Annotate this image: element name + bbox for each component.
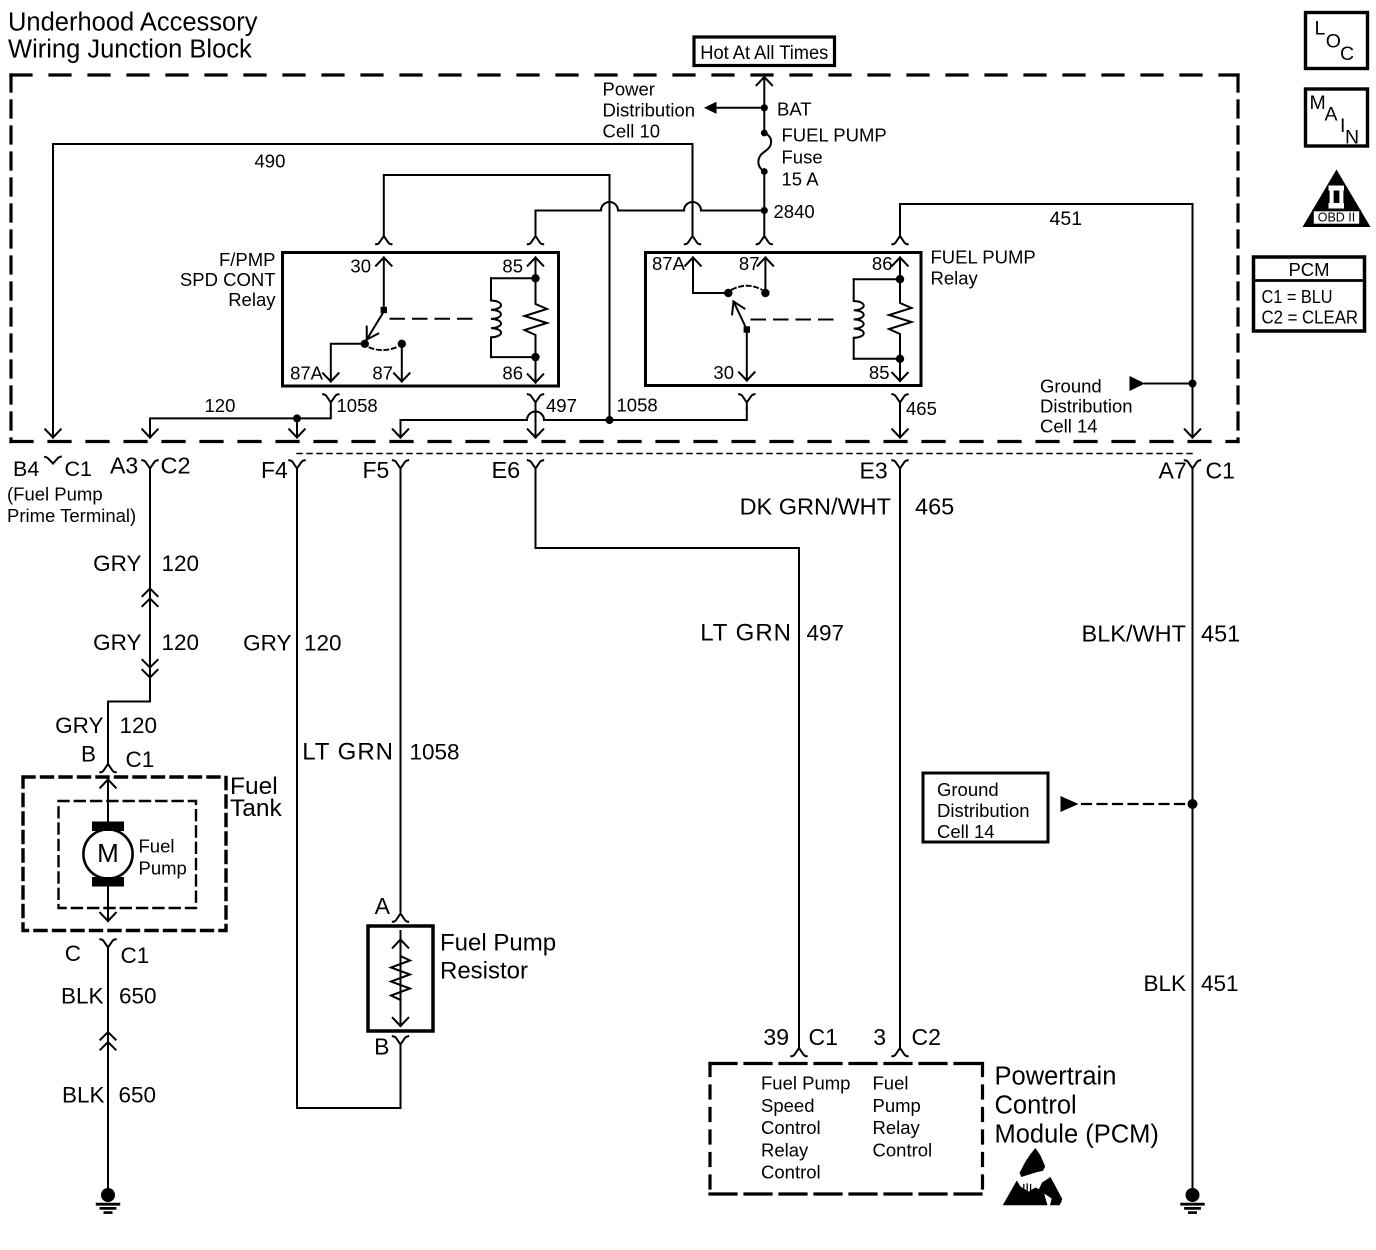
svg-text:PCM: PCM bbox=[1288, 259, 1329, 280]
svg-text:87A: 87A bbox=[290, 363, 324, 384]
svg-text:87A: 87A bbox=[652, 253, 686, 274]
svg-text:Control: Control bbox=[995, 1092, 1077, 1120]
svg-text:465: 465 bbox=[906, 398, 937, 419]
svg-text:F5: F5 bbox=[363, 457, 390, 483]
svg-text:B: B bbox=[81, 742, 96, 767]
svg-text:OBD II: OBD II bbox=[1318, 211, 1356, 225]
svg-text:Relay: Relay bbox=[931, 268, 979, 289]
svg-text:B4: B4 bbox=[13, 457, 39, 481]
svg-text:C2: C2 bbox=[912, 1024, 941, 1050]
svg-text:1058: 1058 bbox=[617, 395, 658, 416]
svg-text:Prime Terminal): Prime Terminal) bbox=[7, 505, 136, 526]
svg-text:85: 85 bbox=[869, 362, 890, 383]
svg-text:BLK/WHT: BLK/WHT bbox=[1082, 621, 1186, 647]
svg-text:2840: 2840 bbox=[774, 201, 815, 222]
svg-text:Ground: Ground bbox=[937, 779, 999, 800]
svg-text:3: 3 bbox=[873, 1024, 886, 1050]
svg-text:LT GRN: LT GRN bbox=[302, 739, 394, 766]
svg-text:GRY: GRY bbox=[93, 630, 141, 655]
svg-text:FUEL PUMP: FUEL PUMP bbox=[782, 125, 887, 146]
svg-text:BLK: BLK bbox=[1143, 971, 1186, 996]
svg-text:1058: 1058 bbox=[337, 395, 378, 416]
svg-text:451: 451 bbox=[1201, 621, 1240, 647]
svg-text:451: 451 bbox=[1201, 971, 1239, 996]
svg-text:120: 120 bbox=[120, 713, 158, 738]
svg-text:Power: Power bbox=[603, 79, 655, 100]
svg-text:Wiring Junction Block: Wiring Junction Block bbox=[8, 36, 252, 64]
svg-text:C2 = CLEAR: C2 = CLEAR bbox=[1262, 307, 1359, 328]
svg-text:B: B bbox=[374, 1034, 389, 1060]
svg-text:C: C bbox=[1340, 43, 1354, 65]
svg-text:DK GRN/WHT: DK GRN/WHT bbox=[740, 494, 891, 520]
svg-text:Distribution: Distribution bbox=[603, 100, 696, 121]
svg-text:Relay: Relay bbox=[873, 1117, 921, 1138]
svg-text:Fuel Pump: Fuel Pump bbox=[440, 930, 556, 957]
svg-text:15 A: 15 A bbox=[782, 169, 820, 190]
svg-text:FUEL PUMP: FUEL PUMP bbox=[931, 247, 1036, 268]
svg-text:120: 120 bbox=[162, 551, 200, 576]
svg-text:Fuel: Fuel bbox=[873, 1073, 909, 1094]
svg-text:A7: A7 bbox=[1159, 458, 1187, 484]
svg-text:F4: F4 bbox=[261, 457, 288, 483]
svg-text:85: 85 bbox=[502, 256, 523, 277]
svg-text:465: 465 bbox=[915, 494, 954, 520]
svg-text:GRY: GRY bbox=[243, 631, 291, 656]
svg-text:Cell 10: Cell 10 bbox=[603, 121, 661, 142]
svg-text:C1: C1 bbox=[126, 747, 155, 772]
svg-text:30: 30 bbox=[350, 256, 371, 277]
svg-text:C1 = BLU: C1 = BLU bbox=[1262, 286, 1333, 307]
svg-text:650: 650 bbox=[119, 984, 157, 1009]
svg-text:Tank: Tank bbox=[230, 795, 283, 822]
svg-text:490: 490 bbox=[255, 151, 286, 172]
svg-text:C1: C1 bbox=[65, 457, 92, 481]
svg-text:Cell 14: Cell 14 bbox=[1040, 416, 1098, 437]
svg-text:C1: C1 bbox=[1206, 458, 1235, 484]
svg-text:Pump: Pump bbox=[873, 1095, 921, 1116]
svg-text:Cell 14: Cell 14 bbox=[937, 821, 995, 842]
svg-text:Resistor: Resistor bbox=[440, 958, 528, 985]
svg-text:M: M bbox=[97, 838, 119, 868]
svg-text:Distribution: Distribution bbox=[1040, 396, 1133, 417]
svg-text:30: 30 bbox=[713, 362, 734, 383]
svg-text:M: M bbox=[1310, 92, 1326, 114]
svg-text:497: 497 bbox=[546, 395, 577, 416]
svg-text:Hot At All Times: Hot At All Times bbox=[700, 43, 828, 64]
svg-text:C2: C2 bbox=[161, 453, 191, 479]
svg-text:E3: E3 bbox=[860, 458, 888, 484]
svg-text:Fuse: Fuse bbox=[782, 147, 823, 168]
svg-text:SPD CONT: SPD CONT bbox=[180, 269, 276, 290]
svg-text:86: 86 bbox=[502, 363, 523, 384]
svg-text:N: N bbox=[1345, 127, 1359, 149]
svg-text:E6: E6 bbox=[492, 457, 521, 483]
svg-text:39: 39 bbox=[763, 1024, 789, 1050]
svg-text:C1: C1 bbox=[809, 1024, 838, 1050]
svg-text:Fuel: Fuel bbox=[139, 836, 175, 857]
svg-text:F/PMP: F/PMP bbox=[219, 249, 276, 270]
svg-text:BLK: BLK bbox=[62, 1083, 105, 1108]
svg-text:A: A bbox=[1325, 104, 1338, 126]
svg-text:BLK: BLK bbox=[61, 984, 104, 1009]
svg-text:Module (PCM): Module (PCM) bbox=[995, 1121, 1159, 1149]
svg-text:451: 451 bbox=[1050, 208, 1083, 230]
svg-text:A3: A3 bbox=[110, 453, 138, 479]
svg-text:120: 120 bbox=[162, 630, 200, 655]
svg-text:C: C bbox=[65, 941, 81, 966]
svg-text:Relay: Relay bbox=[228, 289, 276, 310]
svg-text:650: 650 bbox=[119, 1083, 157, 1108]
svg-text:Control: Control bbox=[761, 1117, 821, 1138]
svg-text:Powertrain: Powertrain bbox=[995, 1063, 1117, 1091]
svg-text:87: 87 bbox=[739, 253, 760, 274]
svg-text:Pump: Pump bbox=[139, 858, 187, 879]
svg-text:1058: 1058 bbox=[410, 740, 460, 765]
svg-text:120: 120 bbox=[205, 395, 236, 416]
svg-text:120: 120 bbox=[304, 631, 342, 656]
svg-text:Relay: Relay bbox=[761, 1139, 809, 1160]
svg-text:C1: C1 bbox=[121, 943, 150, 968]
svg-text:BAT: BAT bbox=[777, 99, 812, 120]
svg-text:Ground: Ground bbox=[1040, 376, 1102, 397]
svg-text:Underhood Accessory: Underhood Accessory bbox=[8, 9, 258, 37]
svg-text:A: A bbox=[375, 893, 391, 919]
svg-text:LT GRN: LT GRN bbox=[700, 620, 792, 647]
svg-text:GRY: GRY bbox=[93, 551, 141, 576]
svg-text:87: 87 bbox=[372, 363, 393, 384]
svg-text:O: O bbox=[1326, 31, 1341, 53]
svg-text:86: 86 bbox=[872, 253, 893, 274]
svg-text:Distribution: Distribution bbox=[937, 800, 1030, 821]
svg-text:Speed: Speed bbox=[761, 1095, 815, 1116]
svg-text:(Fuel Pump: (Fuel Pump bbox=[7, 484, 103, 505]
svg-text:Control: Control bbox=[873, 1139, 933, 1160]
svg-text:GRY: GRY bbox=[55, 713, 103, 738]
svg-text:Fuel Pump: Fuel Pump bbox=[761, 1073, 850, 1094]
svg-text:Control: Control bbox=[761, 1162, 821, 1183]
svg-text:L: L bbox=[1315, 18, 1326, 40]
svg-text:497: 497 bbox=[807, 621, 845, 646]
